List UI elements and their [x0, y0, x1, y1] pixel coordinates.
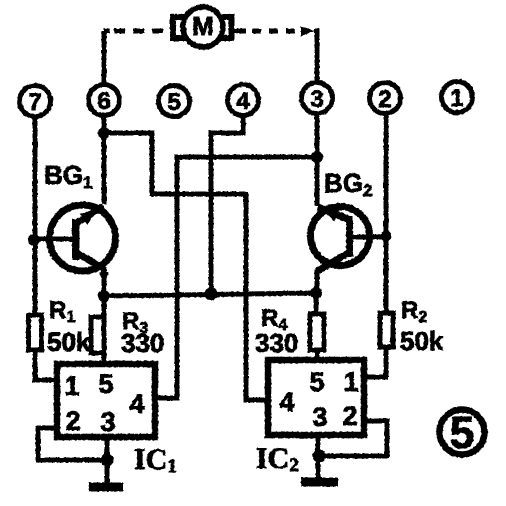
svg-text:7: 7 — [28, 89, 41, 116]
wire BG1 emitter node to R3 and IC1 pin 5 — [102, 296, 107, 365]
svg-text:4: 4 — [236, 88, 250, 115]
resistor R3 — [91, 317, 104, 353]
resistor R4 — [310, 314, 324, 350]
svg-text:2: 2 — [378, 86, 391, 113]
wire node3 cross-couple to IC1 pin 4 — [155, 157, 317, 398]
wire terminal 4 to emitter rail — [211, 115, 243, 294]
svg-text:M: M — [192, 11, 214, 41]
wire BG2 emitter node to R4 and IC2 top — [316, 293, 317, 361]
svg-text:5: 5 — [167, 89, 180, 116]
wire emitter rail — [104, 293, 316, 296]
node BG1 emitter — [98, 290, 110, 302]
node BG1 base — [28, 234, 40, 246]
wire terminal 3 to BG2 collector — [315, 113, 320, 206]
svg-text:3: 3 — [310, 86, 323, 113]
IC U2 — [268, 360, 364, 435]
wire right corner down to terminal 3 — [314, 31, 317, 83]
terminal 1 — [442, 82, 473, 113]
terminal 4 — [228, 85, 259, 116]
svg-text:3: 3 — [312, 402, 327, 432]
wire IC2 pin 3 to ground — [316, 435, 321, 478]
svg-text:5: 5 — [98, 369, 113, 399]
ground IC1 — [89, 483, 123, 492]
figure number 5 — [440, 407, 485, 458]
wire IC1 pin 2 ground loop — [38, 428, 107, 460]
node junction terminal3 — [311, 151, 323, 163]
resistor R2 — [380, 313, 393, 347]
svg-text:5: 5 — [309, 367, 324, 397]
label R3 330 — [121, 308, 164, 358]
node BG2 base — [381, 231, 392, 242]
wire terminal 6 to BG1 collector — [102, 115, 107, 204]
svg-text:4: 4 — [279, 387, 294, 417]
wire dashed left motor lead — [112, 29, 163, 34]
wire node6 cross-couple to IC2 pin 4 — [104, 133, 268, 400]
svg-text:1: 1 — [64, 371, 79, 401]
terminal 2 — [370, 83, 401, 114]
wire terminal 7 to R1 — [33, 116, 38, 315]
svg-text:50k: 50k — [400, 326, 444, 356]
resistor R1 — [29, 315, 42, 350]
svg-text:2: 2 — [342, 401, 357, 431]
arrowhead on right motor lead — [301, 26, 315, 36]
svg-text:4: 4 — [129, 389, 144, 419]
terminal 3 — [302, 83, 333, 114]
ground IC2 — [301, 478, 338, 487]
wire dashed right motor lead — [252, 29, 296, 34]
svg-text:5: 5 — [449, 407, 474, 458]
wire R1 to IC1 pin 1 — [35, 350, 57, 380]
terminal 5 — [159, 86, 190, 117]
node IC2 ground — [313, 450, 326, 463]
label R4 330 — [255, 305, 298, 358]
motor M1 — [173, 7, 232, 47]
wire left corner down to terminal 6 — [102, 31, 107, 86]
wire terminal 2 to R2 — [384, 114, 389, 313]
svg-text:1: 1 — [343, 367, 358, 397]
terminal 6 — [89, 85, 120, 116]
wire R2 to IC2 pin 1 — [364, 347, 388, 377]
svg-text:330: 330 — [121, 328, 164, 358]
svg-text:1: 1 — [450, 85, 463, 112]
svg-text:330: 330 — [255, 328, 298, 358]
node junction terminal6 — [98, 127, 110, 139]
node BG2 emitter — [310, 287, 322, 299]
svg-text:3: 3 — [100, 407, 115, 437]
svg-text:2: 2 — [65, 406, 80, 436]
node IC1 ground — [101, 454, 114, 467]
svg-text:50k: 50k — [47, 327, 91, 357]
label R1 50k — [47, 297, 91, 357]
transistor BG2 — [311, 207, 387, 294]
transistor BG1 — [35, 205, 116, 296]
terminal 7 — [20, 86, 51, 117]
wire IC1 pin 3 to ground — [105, 437, 110, 484]
svg-text:6: 6 — [97, 88, 110, 115]
node emitter rail mid — [205, 288, 218, 301]
wire IC2 pin 2 ground loop — [319, 421, 387, 456]
label R2 50k — [400, 297, 444, 356]
IC U1 — [57, 364, 155, 437]
